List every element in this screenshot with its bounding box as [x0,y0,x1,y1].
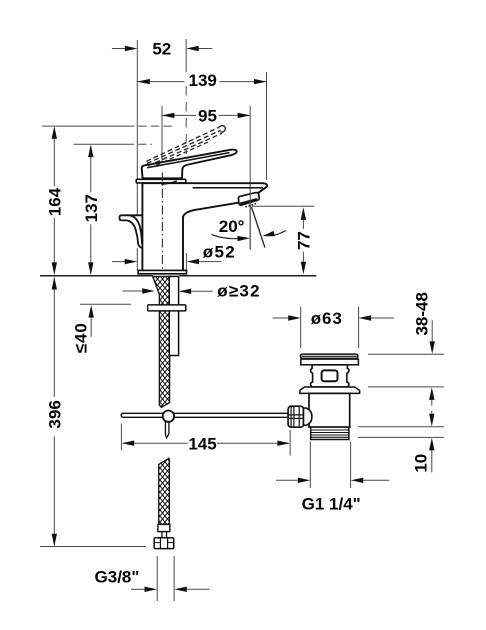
svg-text:77: 77 [295,231,314,250]
svg-text:ø≥32: ø≥32 [217,282,260,301]
dimension <=40 max deck thickness [80,303,131,305]
pop-up rod horizontal bar [121,413,288,417]
pop-up waste: upper flange [301,359,359,365]
reference line top of raised lever (164) [42,125,134,127]
dimension o52 base diameter [112,261,125,263]
svg-text:10: 10 [412,454,431,473]
svg-text:164: 164 [46,187,65,216]
centerline of faucet (dash-dot) [161,173,163,271]
svg-text:52: 52 [152,40,171,59]
reference line waste lower flange [368,386,444,388]
lever neck transition onto spout [162,181,177,184]
extension line right of 52 (solid then hidden/dashed) [185,39,187,72]
pop-up waste: threaded tail G1 1/4 [311,427,349,439]
svg-text:≤40: ≤40 [72,322,91,353]
svg-text:139: 139 [189,71,217,90]
pop-up rod lower stub [165,422,169,438]
svg-text:38-48: 38-48 [413,292,432,335]
spout top edge and nose [142,183,267,193]
mounting washer/nut below deck [148,305,186,311]
braided supply hose (upper) [153,276,170,407]
dimension 137 (vertical) [90,146,92,192]
pop-up waste: body [309,393,350,427]
svg-text:20°: 20° [219,217,245,236]
reference line thread bottom [358,436,444,438]
svg-text:145: 145 [188,434,216,453]
dimension G3/8 supply thread [156,556,158,601]
extension line left (52 / o52 back edge) [136,40,138,215]
dimension 10 thread length [429,438,434,451]
svg-text:ø63: ø63 [311,309,343,328]
pop-up waste: neck with notches [311,365,350,387]
braided supply hose (lower segment) [159,458,170,524]
base plate on counter [138,270,186,273]
rigid tail pipe [169,276,178,355]
extension line right of 139 [266,72,268,180]
extension line right for o52 [185,253,187,271]
aerator (angled outlet) [238,193,259,205]
counter/basin surface line [40,275,153,277]
dimension 95 [162,114,196,116]
dimension 164 (vertical) [53,128,55,187]
reference line waste top disc [368,353,444,355]
svg-text:396: 396 [46,400,65,428]
pull-rod knob (hook at back) [120,215,143,220]
svg-text:G1 1/4": G1 1/4" [302,495,361,514]
dimension 396 (vertical) [53,278,55,397]
rod coupling cap [304,408,312,425]
dimension o>=32 hole diameter [123,290,143,292]
cartridge flange ring [136,179,186,183]
95 ext line visible across aerator [249,193,251,250]
dimension 77 spout height [252,205,314,207]
reference line bottom of supply hose (396) [40,546,146,548]
spout inner line [193,187,263,189]
hose ferrule [158,524,170,531]
faucet body left edge [141,183,143,270]
svg-text:ø52: ø52 [203,243,236,262]
20deg spray angle: stream line [251,207,265,248]
overflow slot [322,370,338,381]
pivot ball joint [163,411,174,422]
pop-up waste: lower flange dish [300,387,360,393]
extension/center line at faucet axis [161,106,163,169]
dimension o63 waste flange diameter [300,307,302,349]
dimension 139 [137,81,184,83]
svg-text:G3/8": G3/8" [95,567,140,586]
svg-text:137: 137 [82,194,101,222]
extension line right of 95 (vertical ref for 20deg) [249,106,251,250]
dimension G1 1/4 waste thread [309,442,311,489]
raised lever (dashed alternate position) [146,127,218,161]
dimension 145 rod length [120,424,122,451]
spout underside and body right edge [183,203,238,271]
reference line thread top [358,426,444,428]
reference line top of lever (137) [74,143,134,145]
rod coupling nut on waste [288,406,303,427]
svg-text:95: 95 [198,106,217,125]
dimension 52 (top) [112,48,125,50]
arrows between flange and thread refs [429,387,434,400]
G3/8 connector nut [154,538,174,549]
faucet lever handle (rest position) [142,150,237,179]
pop-up waste: top disc [300,354,358,358]
